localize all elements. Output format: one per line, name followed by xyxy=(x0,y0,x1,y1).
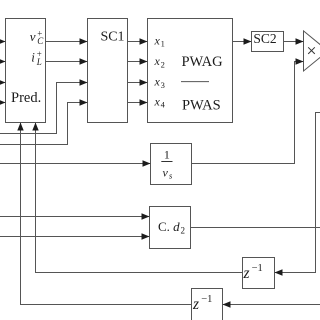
arrow into C.d2 row2 xyxy=(142,233,150,239)
wire input row4 xyxy=(0,102,6,104)
wire Pred to SC1 row2 xyxy=(46,61,88,63)
svg-text:SC2: SC2 xyxy=(253,31,276,46)
arrow into PWAG row2 xyxy=(140,58,148,64)
wire PWAG to SC2 xyxy=(233,41,252,43)
svg-text:x: x xyxy=(154,75,161,89)
arrow into multiplier in2 xyxy=(296,58,304,64)
arrow into SC2 xyxy=(244,38,252,44)
arrow into Pred row1 xyxy=(0,38,6,44)
wire SC1 to PWAG row2 xyxy=(128,61,148,63)
arrow up into Pred bottom left xyxy=(17,123,23,131)
wire Pred to SC1 row1 xyxy=(46,41,88,43)
wire feed SC1 row4 xyxy=(0,103,88,145)
svg-text:SC1: SC1 xyxy=(100,30,124,45)
svg-text:2: 2 xyxy=(181,225,186,235)
svg-text:x: x xyxy=(154,33,161,47)
wire 1/vs to multiplier xyxy=(192,62,304,164)
wire z^-1 lower to Pred bottom xyxy=(21,123,192,305)
wire input row3 xyxy=(0,82,6,84)
block Pred xyxy=(6,19,46,123)
svg-text:−1: −1 xyxy=(201,294,212,305)
svg-text:PWAS: PWAS xyxy=(182,98,221,114)
wire input row2 xyxy=(0,61,6,63)
svg-text:−1: −1 xyxy=(252,263,263,274)
svg-text:1: 1 xyxy=(161,39,165,49)
svg-text:z: z xyxy=(243,265,250,282)
wire C.d2 output xyxy=(191,227,320,229)
wire SC1 to PWAG row4 xyxy=(128,102,148,104)
arrow into SC1 row1 xyxy=(80,38,88,44)
svg-text:4: 4 xyxy=(161,100,166,110)
arrow into Pred row2 xyxy=(0,58,6,64)
arrow into C.d2 row1 xyxy=(142,213,150,219)
multiplier triangle xyxy=(304,31,320,71)
arrow into PWAG row4 xyxy=(140,99,148,105)
svg-text:z: z xyxy=(192,296,199,313)
svg-text:+: + xyxy=(37,49,42,59)
arrow into Pred row4 xyxy=(0,99,6,105)
wire into C.d2 row1 xyxy=(0,216,150,218)
arrow into SC1 row4 xyxy=(80,99,88,105)
svg-text:i: i xyxy=(31,49,35,64)
arrow into SC1 row3 xyxy=(80,79,88,85)
arrow into z^-1 lower (leftwards) xyxy=(223,301,231,307)
svg-text:v: v xyxy=(30,29,36,44)
wire SC1 to PWAG row1 xyxy=(128,41,148,43)
block 1/vs xyxy=(151,144,192,185)
svg-text:2: 2 xyxy=(161,59,165,69)
wire into C.d2 row2 xyxy=(0,236,150,238)
block z^-1 lower xyxy=(192,289,223,320)
arrow into multiplier in1 xyxy=(296,38,304,44)
block C.d2 xyxy=(150,207,191,249)
svg-text:1: 1 xyxy=(164,148,170,162)
svg-text:C. d: C. d xyxy=(158,219,180,234)
svg-text:3: 3 xyxy=(161,80,165,90)
arrow into PWAG row3 xyxy=(140,79,148,85)
arrow into SC1 row2 xyxy=(80,58,88,64)
multiplier x symbol xyxy=(308,47,315,54)
svg-text:PWAG: PWAG xyxy=(181,54,223,70)
wire into z^-1 lower xyxy=(223,304,320,306)
block PWAG/PWAS xyxy=(148,19,233,123)
PWAG/PWAS divider line xyxy=(181,81,209,83)
svg-text:x: x xyxy=(154,95,161,109)
arrow into Pred row3 xyxy=(0,79,6,85)
wire feed SC1 row3 xyxy=(0,83,88,134)
block SC2 xyxy=(252,32,284,52)
arrow into 1/vs xyxy=(143,160,151,166)
wire into 1/vs xyxy=(0,163,151,165)
block SC1 xyxy=(88,19,128,123)
block z^-1 upper xyxy=(243,258,275,289)
arrow into PWAG row1 xyxy=(140,38,148,44)
arrow into z^-1 upper (leftwards) xyxy=(275,269,283,275)
wire SC1 to PWAG row3 xyxy=(128,82,148,84)
wire into z^-1 upper xyxy=(275,113,320,273)
wire SC2 to multiplier xyxy=(284,41,304,43)
wire z^-1 upper to Pred bottom xyxy=(36,123,243,273)
svg-text:v: v xyxy=(163,166,169,180)
svg-text:Pred.: Pred. xyxy=(11,90,41,106)
svg-text:+: + xyxy=(37,29,42,39)
svg-text:x: x xyxy=(154,54,161,68)
arrow up into Pred bottom right xyxy=(32,123,38,131)
wire input row1 xyxy=(0,41,6,43)
